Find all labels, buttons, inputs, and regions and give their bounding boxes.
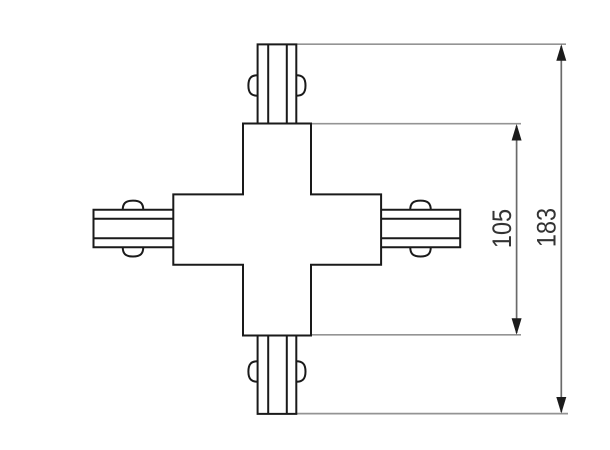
svg-text:183: 183 [532,208,562,247]
svg-text:105: 105 [487,209,517,248]
